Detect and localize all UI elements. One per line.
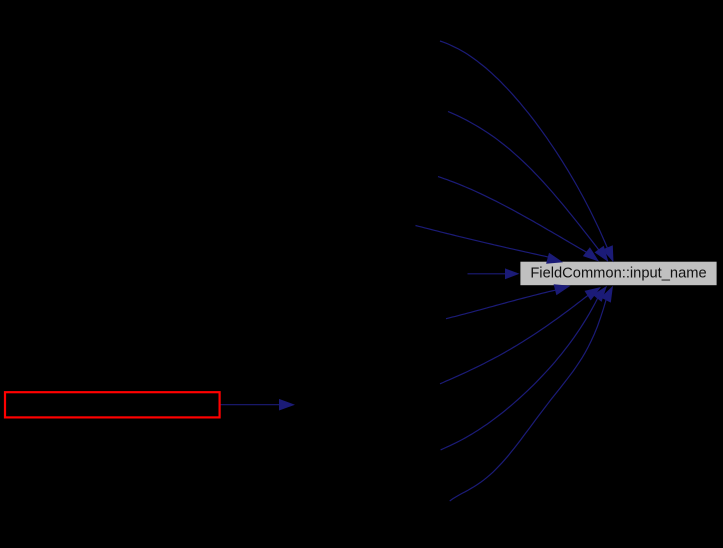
edge 1: hidden caller node 1 wire to input_name xyxy=(440,41,614,262)
edge 8: hidden caller node 8 wire to input_name xyxy=(441,286,607,450)
red node box (highlighted current-page node, label hidden black-on-black) xyxy=(5,392,220,417)
edge 2: hidden caller node 2 wire to input_name xyxy=(448,112,609,263)
svg-text:FieldCommon::input_name: FieldCommon::input_name xyxy=(530,266,706,282)
node label text FieldCommon::input_name xyxy=(530,266,706,282)
edge 7: hidden caller node 7 wire to input_name xyxy=(440,287,601,384)
node FieldCommon::input_name (grey filled box) xyxy=(520,262,716,286)
edge 6: hidden caller node 6 wire to input_name xyxy=(446,284,571,318)
edge 9: hidden caller node 9 wire to input_name xyxy=(450,286,613,501)
edge 5: hidden caller node 5 straight wire to input_name xyxy=(468,268,520,279)
edge 3: hidden caller node 3 wire to input_name xyxy=(438,177,599,262)
edge from red highlighted node: straight wire to hidden node xyxy=(220,399,295,411)
edge 4: hidden caller node 4 wire to input_name xyxy=(416,226,564,264)
